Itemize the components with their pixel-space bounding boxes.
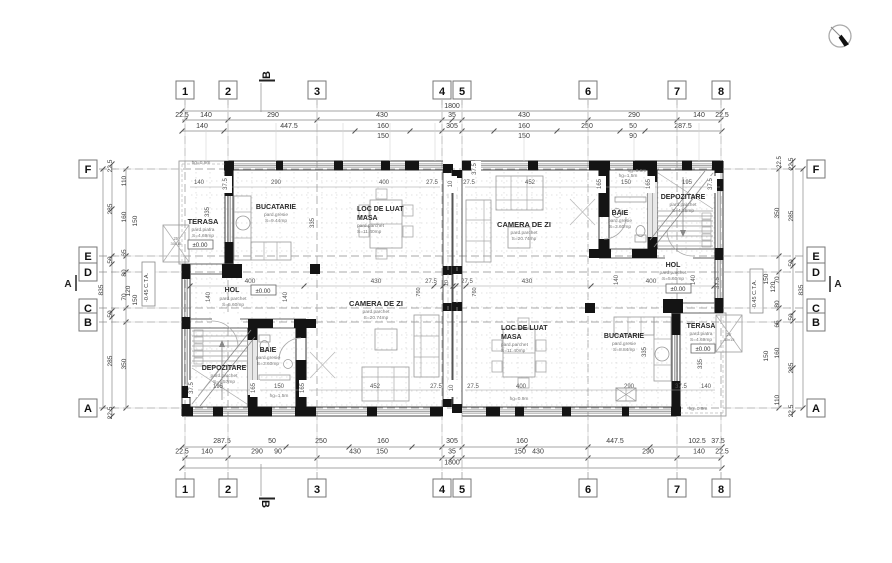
svg-text:S=5.60mp: S=5.60mp <box>662 276 684 282</box>
svg-text:pard.gresie: pard.gresie <box>256 355 280 361</box>
svg-text:B: B <box>812 317 820 329</box>
grid bubbles right F-A <box>807 160 825 417</box>
svg-text:27.5: 27.5 <box>467 384 479 390</box>
svg-text:pard.parchet: pard.parchet <box>501 342 529 348</box>
svg-text:6: 6 <box>585 484 591 496</box>
svg-text:D: D <box>84 267 92 279</box>
right unit walls+furniture (mirrored) <box>452 161 742 417</box>
svg-text:2: 2 <box>225 484 231 496</box>
svg-text:760: 760 <box>416 287 422 296</box>
svg-text:±0.00: ±0.00 <box>193 243 209 249</box>
room label TERASA top-left <box>188 217 219 239</box>
svg-text:A: A <box>84 403 92 415</box>
svg-text:430: 430 <box>349 449 361 456</box>
svg-text:pard.parchet: pard.parchet <box>220 296 248 302</box>
level box terrace bottom-right <box>691 344 715 353</box>
svg-text:160: 160 <box>516 438 528 445</box>
svg-text:E: E <box>812 251 819 263</box>
svg-text:140: 140 <box>200 112 212 119</box>
dim column left 2 <box>121 167 129 411</box>
svg-text:-0.45 C.T.A.: -0.45 C.T.A. <box>144 272 150 302</box>
svg-text:150: 150 <box>514 449 526 456</box>
svg-text:LOC DE LUAT: LOC DE LUAT <box>357 206 404 213</box>
svg-text:10: 10 <box>448 180 454 187</box>
sub label HOL bottom-left <box>220 296 248 308</box>
svg-text:1: 1 <box>182 484 188 496</box>
svg-text:140: 140 <box>194 180 205 186</box>
room label BUCATARIE top-left <box>256 204 297 224</box>
svg-text:335: 335 <box>205 206 211 217</box>
svg-text:150: 150 <box>274 384 285 390</box>
svg-text:140: 140 <box>691 274 697 285</box>
svg-text:±0.00: ±0.00 <box>696 347 712 353</box>
svg-text:140: 140 <box>206 291 212 302</box>
svg-text:37.5: 37.5 <box>189 382 195 394</box>
svg-text:285: 285 <box>788 362 795 373</box>
interior dim row bottom-left <box>188 380 442 397</box>
svg-text:140: 140 <box>693 449 705 456</box>
svg-text:37.5: 37.5 <box>472 163 478 175</box>
svg-text:22.5: 22.5 <box>788 404 795 417</box>
svg-text:140: 140 <box>201 449 213 456</box>
interior dim row bottom-right <box>448 380 715 397</box>
level box -0.45 C.T.A. right <box>750 269 763 313</box>
svg-text:TERASA: TERASA <box>188 217 219 226</box>
svg-text:400: 400 <box>245 278 256 285</box>
svg-text:37.5: 37.5 <box>675 384 687 390</box>
svg-text:10: 10 <box>444 280 450 286</box>
svg-text:165: 165 <box>300 382 306 393</box>
svg-text:37.5: 37.5 <box>223 178 229 190</box>
svg-text:102.5: 102.5 <box>688 438 706 445</box>
svg-text:CAMERA DE ZI: CAMERA DE ZI <box>497 220 551 229</box>
svg-text:165: 165 <box>597 178 603 189</box>
svg-text:BUCATARIE: BUCATARIE <box>604 333 645 340</box>
svg-text:285: 285 <box>788 210 795 221</box>
hg window-height labels <box>192 160 708 412</box>
grid bubbles top 1-8 <box>176 81 730 99</box>
svg-text:27.5: 27.5 <box>463 180 475 186</box>
svg-text:305: 305 <box>446 123 458 130</box>
svg-text:140: 140 <box>614 274 620 285</box>
svg-text:5: 5 <box>459 484 465 496</box>
interior dim row top-right <box>465 161 720 193</box>
svg-text:S=3.60mp: S=3.60mp <box>257 361 279 367</box>
svg-text:pard.piatra: pard.piatra <box>192 227 215 233</box>
svg-text:22.5: 22.5 <box>777 156 783 168</box>
room label BAIE bottom-left <box>256 347 280 367</box>
svg-text:pard.parchet: pard.parchet <box>357 223 385 229</box>
svg-text:BUCATARIE: BUCATARIE <box>256 204 297 211</box>
svg-text:F: F <box>813 164 820 176</box>
svg-text:50: 50 <box>107 310 114 318</box>
svg-text:BAIE: BAIE <box>260 347 277 354</box>
svg-text:S=4.55mp: S=4.55mp <box>672 208 694 214</box>
dim 37.5 HOL top-right <box>715 277 721 289</box>
level box HOL top-right <box>666 284 691 293</box>
level box HOL bottom-left <box>251 285 276 295</box>
svg-text:165: 165 <box>646 178 652 189</box>
room label HOL bottom-left <box>225 287 241 294</box>
svg-text:37.5: 37.5 <box>715 277 721 289</box>
svg-text:400: 400 <box>379 180 390 186</box>
svg-text:pard.parchet: pard.parchet <box>660 270 688 276</box>
svg-text:S=11.40mp: S=11.40mp <box>501 348 526 354</box>
svg-text:22.5: 22.5 <box>107 406 114 419</box>
exterior steps label left <box>171 236 183 246</box>
svg-text:65: 65 <box>774 320 781 328</box>
svg-text:±0.00: ±0.00 <box>256 289 272 295</box>
svg-text:335: 335 <box>642 346 648 357</box>
section marker A right <box>830 276 842 292</box>
svg-text:B: B <box>261 71 273 79</box>
svg-text:350: 350 <box>774 207 781 218</box>
room label BUCATARIE bottom-right <box>604 333 645 353</box>
svg-text:A: A <box>812 403 820 415</box>
svg-text:27.5: 27.5 <box>426 180 438 186</box>
svg-text:10: 10 <box>449 384 455 391</box>
svg-text:290: 290 <box>642 449 654 456</box>
dim row top 1 <box>175 112 729 123</box>
svg-text:4: 4 <box>439 86 446 98</box>
room label HOL top-right <box>660 262 688 282</box>
svg-text:160: 160 <box>121 211 128 222</box>
svg-text:pard.parchet: pard.parchet <box>363 309 391 315</box>
svg-text:-0.45 C.T.A.: -0.45 C.T.A. <box>752 279 758 309</box>
svg-text:B: B <box>84 317 92 329</box>
svg-text:400: 400 <box>646 278 657 285</box>
svg-text:430: 430 <box>532 449 544 456</box>
level box -0.45 C.T.A. left <box>142 262 155 306</box>
interior dim row middle <box>188 278 717 297</box>
svg-text:hg=0.9m: hg=0.9m <box>689 406 708 412</box>
svg-text:S=4.57mp: S=4.57mp <box>213 379 235 385</box>
svg-text:37.5: 37.5 <box>711 438 725 445</box>
svg-text:hg=0.9m: hg=0.9m <box>192 160 211 166</box>
svg-text:50: 50 <box>107 256 114 264</box>
svg-text:hg=0.9m: hg=0.9m <box>510 396 529 402</box>
svg-text:165: 165 <box>251 382 257 393</box>
svg-text:195: 195 <box>682 180 693 186</box>
dim column right 1 <box>788 157 796 417</box>
svg-text:80: 80 <box>121 269 128 277</box>
grid bubbles left F-A <box>79 160 97 417</box>
svg-text:447.5: 447.5 <box>606 438 624 445</box>
svg-text:150: 150 <box>621 180 632 186</box>
svg-text:S=20.74mp: S=20.74mp <box>364 315 389 321</box>
svg-text:±0.00: ±0.00 <box>671 287 687 293</box>
svg-text:50: 50 <box>788 259 795 267</box>
svg-text:150: 150 <box>763 350 770 361</box>
grid row axis lines A-F <box>99 169 806 408</box>
svg-text:150: 150 <box>376 449 388 456</box>
room label LOC DE LUAT MASA top-left <box>357 206 404 235</box>
svg-text:335: 335 <box>310 217 316 228</box>
svg-text:430: 430 <box>376 112 388 119</box>
dim column right 3 <box>763 273 777 361</box>
svg-text:5: 5 <box>459 86 465 98</box>
svg-text:DEPOZITARE: DEPOZITARE <box>202 365 247 372</box>
section marker A left <box>64 275 76 291</box>
grid bubbles bottom 1-8 <box>176 479 730 497</box>
exterior steps label right <box>724 332 736 342</box>
svg-text:hg=1.5m: hg=1.5m <box>619 173 638 179</box>
svg-text:35: 35 <box>448 449 456 456</box>
svg-text:110: 110 <box>774 394 781 405</box>
dim column right overall 835 <box>777 156 806 411</box>
svg-text:22.5: 22.5 <box>175 112 189 119</box>
svg-text:35: 35 <box>448 112 456 119</box>
svg-text:285: 285 <box>107 355 114 366</box>
dim row bottom 2 <box>175 449 729 461</box>
svg-text:90: 90 <box>629 133 637 140</box>
svg-text:430: 430 <box>371 278 382 285</box>
svg-text:S=8.84mp: S=8.84mp <box>613 347 635 353</box>
svg-text:MASA: MASA <box>501 334 522 341</box>
svg-text:140: 140 <box>283 291 289 302</box>
svg-text:3: 3 <box>314 86 320 98</box>
svg-text:D: D <box>812 267 820 279</box>
svg-text:TERASA: TERASA <box>687 323 716 330</box>
svg-text:S=4.69mp: S=4.69mp <box>192 233 214 239</box>
svg-text:6: 6 <box>585 86 591 98</box>
svg-text:400: 400 <box>516 384 527 390</box>
svg-text:150: 150 <box>763 273 770 284</box>
svg-text:DEPOZITARE: DEPOZITARE <box>661 194 706 201</box>
svg-text:290: 290 <box>251 449 263 456</box>
svg-text:CAMERA DE ZI: CAMERA DE ZI <box>349 299 403 308</box>
svg-text:290: 290 <box>624 384 635 390</box>
svg-text:8: 8 <box>718 86 724 98</box>
svg-text:S=5.60mp: S=5.60mp <box>222 302 244 308</box>
left dim extension lines <box>116 169 182 408</box>
svg-text:pard.parchet: pard.parchet <box>511 230 539 236</box>
svg-text:E: E <box>84 251 91 263</box>
svg-text:A: A <box>64 279 71 290</box>
svg-text:285: 285 <box>107 203 114 214</box>
svg-text:290: 290 <box>271 180 282 186</box>
north arrow <box>829 25 851 47</box>
svg-text:hg=1.5m: hg=1.5m <box>270 393 289 399</box>
room label BAIE top-right <box>608 210 632 230</box>
svg-text:S=11.40mp: S=11.40mp <box>357 229 382 235</box>
interior vertical dims left <box>205 206 316 302</box>
svg-text:S=9.44mp: S=9.44mp <box>265 218 287 224</box>
svg-text:7: 7 <box>674 86 680 98</box>
svg-text:50: 50 <box>788 313 795 321</box>
svg-text:22.5: 22.5 <box>788 157 795 170</box>
left unit walls+furniture <box>163 161 453 417</box>
interior dim row top-left <box>190 176 475 193</box>
dim column left overall 835 <box>98 167 106 411</box>
interior vertical dims right <box>614 274 704 369</box>
svg-text:1800: 1800 <box>444 460 460 467</box>
faint interior modular grid <box>191 172 714 405</box>
dim column right 2 <box>774 167 782 411</box>
svg-text:760: 760 <box>472 287 478 296</box>
grid column axis lines 1-8 <box>185 100 721 479</box>
dim line bottom overall 1800 <box>180 460 725 471</box>
svg-text:27.5: 27.5 <box>430 384 442 390</box>
room label CAMERA DE ZI bottom-left <box>349 299 403 321</box>
svg-text:160: 160 <box>377 438 389 445</box>
dim line top overall 1800 <box>180 103 725 114</box>
svg-text:7: 7 <box>674 484 680 496</box>
svg-text:22.5: 22.5 <box>175 449 189 456</box>
svg-text:430: 430 <box>522 278 533 285</box>
svg-text:120: 120 <box>770 281 777 292</box>
svg-text:1800: 1800 <box>444 103 460 110</box>
svg-text:350: 350 <box>121 358 128 369</box>
svg-text:452: 452 <box>370 384 381 390</box>
dim column left 3 <box>125 215 139 305</box>
svg-text:835: 835 <box>798 284 805 295</box>
top dim extension lines <box>185 105 721 161</box>
svg-text:F: F <box>85 164 92 176</box>
dim row top 2 <box>180 123 725 134</box>
dim 400 HOL top-right <box>646 278 657 285</box>
level box terrace top-left <box>188 240 213 249</box>
svg-text:290: 290 <box>628 112 640 119</box>
cooktop bottom-right <box>616 388 636 401</box>
svg-text:22.5: 22.5 <box>715 112 729 119</box>
section marker B bottom <box>259 464 275 508</box>
svg-text:S=20.74mp: S=20.74mp <box>512 236 537 242</box>
svg-text:BAIE: BAIE <box>612 210 629 217</box>
svg-text:pard.parchet: pard.parchet <box>670 202 698 208</box>
svg-text:pard.parchet: pard.parchet <box>211 373 239 379</box>
svg-text:8: 8 <box>718 484 724 496</box>
svg-text:305: 305 <box>446 438 458 445</box>
svg-text:447.5: 447.5 <box>280 123 298 130</box>
svg-text:50: 50 <box>268 438 276 445</box>
svg-text:120: 120 <box>125 285 132 296</box>
svg-text:S=3.60mp: S=3.60mp <box>609 224 631 230</box>
svg-text:65: 65 <box>121 249 128 257</box>
svg-text:150: 150 <box>377 133 389 140</box>
svg-text:S=4.69mp: S=4.69mp <box>690 337 712 343</box>
section marker B top <box>259 71 275 112</box>
svg-text:pard.gresie: pard.gresie <box>264 212 288 218</box>
svg-text:80: 80 <box>774 300 781 308</box>
svg-text:MASA: MASA <box>357 215 378 222</box>
svg-text:37.5: 37.5 <box>708 178 714 190</box>
svg-text:4: 4 <box>439 484 446 496</box>
svg-text:160: 160 <box>377 123 389 130</box>
svg-text:150: 150 <box>132 294 139 305</box>
svg-text:250: 250 <box>581 123 593 130</box>
svg-text:1: 1 <box>182 86 188 98</box>
room label LOC DE LUAT MASA bottom-right <box>501 325 548 354</box>
dim column left 1 <box>107 159 115 419</box>
svg-text:335: 335 <box>698 358 704 369</box>
room label CAMERA DE ZI top-right <box>497 220 551 242</box>
svg-text:pard.piatra: pard.piatra <box>690 331 713 337</box>
svg-text:HOL: HOL <box>666 262 682 269</box>
svg-text:140: 140 <box>693 112 705 119</box>
svg-text:452: 452 <box>525 180 536 186</box>
svg-text:140: 140 <box>701 384 712 390</box>
svg-text:B: B <box>259 500 271 508</box>
right dim extension lines <box>723 169 789 408</box>
room label DEPOZITARE bottom-left <box>202 365 247 385</box>
svg-text:A: A <box>834 279 841 290</box>
svg-text:50: 50 <box>629 123 637 130</box>
room label DEPOZITARE top-right <box>661 194 706 214</box>
svg-text:pard.gresie: pard.gresie <box>612 341 636 347</box>
svg-text:150: 150 <box>132 215 139 226</box>
svg-text:pard.gresie: pard.gresie <box>608 218 632 224</box>
svg-text:30x15: 30x15 <box>171 241 183 246</box>
svg-text:110: 110 <box>121 175 128 186</box>
svg-text:160: 160 <box>774 347 781 358</box>
svg-text:22.5: 22.5 <box>715 449 729 456</box>
svg-text:30x15: 30x15 <box>724 337 736 342</box>
svg-text:LOC DE LUAT: LOC DE LUAT <box>501 325 548 332</box>
room label TERASA bottom-right <box>687 323 716 343</box>
bottom dim extension lines <box>185 416 721 471</box>
svg-text:3: 3 <box>314 484 320 496</box>
svg-text:90: 90 <box>274 449 282 456</box>
svg-text:835: 835 <box>98 284 105 295</box>
svg-text:HOL: HOL <box>225 287 241 294</box>
dim row bottom 1 <box>180 438 725 450</box>
svg-text:430: 430 <box>518 112 530 119</box>
svg-text:2: 2 <box>225 86 231 98</box>
svg-text:22.5: 22.5 <box>107 159 114 172</box>
dim row top 3 <box>377 133 637 140</box>
svg-text:290: 290 <box>267 112 279 119</box>
